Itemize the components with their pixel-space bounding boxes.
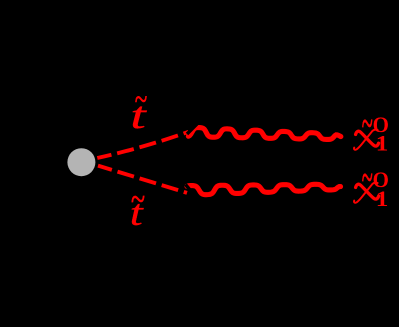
svg-text:1: 1 — [376, 132, 389, 157]
neutralino chi10 wavy line (upper) — [188, 128, 340, 140]
label neutralino chi_1^0 (upper) — [354, 101, 389, 157]
subscript 1 lower — [376, 187, 389, 212]
subscript 1 upper — [376, 132, 389, 157]
superscript 0 lower — [373, 168, 389, 193]
neutralino chi10 wavy line (lower) — [187, 184, 341, 194]
antitop quark line (lower, black on black) — [186, 185, 226, 234]
svg-text:~: ~ — [362, 155, 373, 202]
tilde over chi lower — [362, 155, 373, 202]
tilde over upper t — [135, 81, 148, 118]
svg-text:~: ~ — [135, 81, 148, 118]
label antistop t-tilde (lower) — [130, 179, 145, 234]
label stop t-tilde (upper) — [130, 81, 147, 136]
stop squark propagator (upper dashed red) — [97, 132, 188, 158]
tilde over lower t — [131, 179, 145, 219]
superscript 0 upper — [373, 113, 389, 138]
production vertex blob — [67, 148, 95, 176]
svg-text:~: ~ — [131, 179, 145, 219]
chi glyph lower — [354, 183, 379, 203]
label neutralino chi_1^0 (lower) — [354, 155, 389, 212]
tilde over chi upper — [362, 101, 373, 148]
chi glyph upper — [354, 130, 379, 150]
top quark line (upper, black on black) — [187, 94, 227, 134]
svg-text:1: 1 — [376, 187, 389, 212]
antistop squark propagator (lower dashed red) — [98, 166, 187, 193]
svg-text:~: ~ — [362, 101, 373, 148]
